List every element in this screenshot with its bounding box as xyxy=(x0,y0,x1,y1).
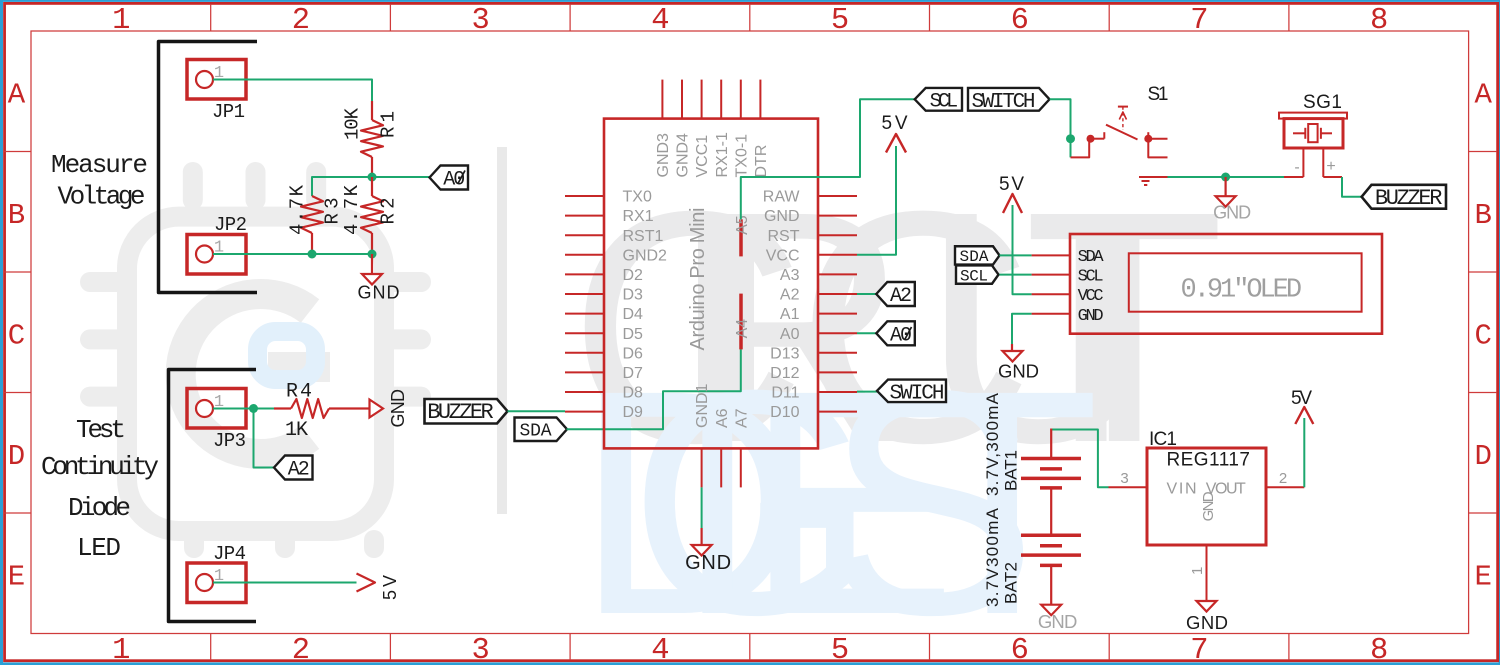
flag A0 (divider) xyxy=(430,166,469,192)
supply 5V arrow (IC1) xyxy=(1295,407,1313,424)
svg-text:GND: GND xyxy=(1038,611,1078,632)
svg-text:6: 6 xyxy=(1011,634,1029,665)
svg-text:2: 2 xyxy=(292,634,310,665)
IC U1 Arduino Pro Mini box xyxy=(604,119,818,449)
junction dot (R3) xyxy=(308,250,317,259)
svg-text:D9: D9 xyxy=(623,404,644,421)
OLED display area xyxy=(1129,253,1362,311)
svg-text:Voltage: Voltage xyxy=(58,182,146,212)
svg-text:D: D xyxy=(1474,440,1491,473)
wire SWITCH flag to S1 xyxy=(1050,99,1071,157)
svg-text:GND: GND xyxy=(358,283,400,303)
flag SDA (D8) xyxy=(515,418,568,442)
label 3.7V300mA xyxy=(983,507,1002,607)
label R2 xyxy=(378,198,400,225)
svg-text:5V: 5V xyxy=(882,113,908,134)
wire JP4 to 5V xyxy=(213,582,357,584)
pin A5 bar xyxy=(739,219,743,256)
svg-text:6: 6 xyxy=(1011,4,1029,38)
svg-text:SCL: SCL xyxy=(930,91,959,114)
resistor R3 xyxy=(301,196,323,254)
svg-text:REG1117: REG1117 xyxy=(1166,450,1250,471)
label REG1117 xyxy=(1166,450,1250,471)
wire JP3 node xyxy=(213,408,274,410)
svg-text:RX1-1: RX1-1 xyxy=(714,132,731,177)
flag SWICH xyxy=(877,380,946,406)
svg-text:D8: D8 xyxy=(623,385,644,402)
svg-text:E: E xyxy=(8,560,25,593)
wire JP1 to R1 xyxy=(213,80,372,102)
label R3 xyxy=(322,198,344,225)
flag SCL (top) xyxy=(915,88,962,114)
svg-text:D6: D6 xyxy=(623,345,644,362)
svg-text:E: E xyxy=(1474,560,1491,593)
ground GND (OLED) xyxy=(998,344,1039,382)
label JP2 xyxy=(214,214,247,236)
buzzer SG1 xyxy=(1279,113,1347,177)
svg-text:SCL: SCL xyxy=(1078,268,1104,287)
svg-text:SDA: SDA xyxy=(1078,248,1105,267)
text Test Continuity Diode LED xyxy=(41,415,159,563)
flag BUZZER (SG1) xyxy=(1362,185,1446,211)
svg-text:D: D xyxy=(8,440,25,473)
label 5V (OLED) xyxy=(999,174,1024,195)
wire SG1 minus xyxy=(1284,176,1303,178)
label OLED pin SCL xyxy=(1078,268,1104,287)
svg-text:A3: A3 xyxy=(780,267,800,284)
svg-text:GND: GND xyxy=(764,208,800,225)
pin TX0-1 xyxy=(733,80,750,178)
svg-text:GND: GND xyxy=(998,361,1039,382)
supply 5V arrow (OLED) xyxy=(1003,194,1022,213)
label 1K xyxy=(285,419,308,442)
label A4 xyxy=(734,319,751,339)
pin D11 xyxy=(771,385,857,402)
wire A5 to SCL flag xyxy=(741,99,915,219)
svg-text:0.91"OLED: 0.91"OLED xyxy=(1181,276,1303,306)
svg-text:1: 1 xyxy=(112,634,130,665)
svg-text:-: - xyxy=(1294,159,1299,176)
svg-text:1: 1 xyxy=(112,4,130,38)
svg-text:SDA: SDA xyxy=(520,422,552,442)
svg-text:BAT2: BAT2 xyxy=(1002,562,1021,604)
flag A2 (test) xyxy=(274,456,313,482)
svg-text:VIN: VIN xyxy=(1167,481,1197,498)
junction node A0 xyxy=(368,173,377,182)
svg-text:4.7K: 4.7K xyxy=(341,184,363,235)
label VOUT xyxy=(1206,481,1246,498)
regulator IC1 box xyxy=(1147,448,1266,545)
label 10K xyxy=(342,107,364,140)
svg-text:A0: A0 xyxy=(780,326,800,343)
svg-text:5: 5 xyxy=(831,634,849,665)
bracket Measure Voltage xyxy=(159,42,258,293)
svg-text:D5: D5 xyxy=(623,326,644,343)
svg-text:Test: Test xyxy=(76,415,126,445)
svg-text:C: C xyxy=(1474,319,1491,352)
wire SDA to A4 xyxy=(567,349,741,429)
svg-text:VCC: VCC xyxy=(1078,287,1104,306)
svg-text:TX0: TX0 xyxy=(623,189,652,206)
pin RST xyxy=(768,228,858,245)
svg-text:10K: 10K xyxy=(342,107,364,140)
label plus xyxy=(1326,158,1335,175)
label 0.91"OLED xyxy=(1181,276,1303,306)
flag SDA (OLED) xyxy=(955,246,1000,266)
svg-text:7: 7 xyxy=(1190,4,1208,38)
label 4.7K (R3) xyxy=(287,184,309,235)
svg-text:C: C xyxy=(8,319,25,352)
svg-text:GND: GND xyxy=(1078,307,1104,326)
svg-text:A7: A7 xyxy=(733,408,750,428)
wire SWICH xyxy=(857,391,878,393)
wire BUZZER to D9 xyxy=(508,410,566,412)
pin A2 xyxy=(780,287,857,304)
connector JP4 xyxy=(187,563,246,603)
ground GND (switch net) xyxy=(1213,177,1251,223)
svg-text:Diode: Diode xyxy=(68,493,131,523)
svg-text:JP3: JP3 xyxy=(213,430,246,452)
svg-text:RST: RST xyxy=(768,228,800,245)
svg-text:5: 5 xyxy=(831,4,849,38)
label R1 xyxy=(378,111,400,138)
junction dot (R2) xyxy=(368,250,377,259)
wire A0 xyxy=(857,332,876,334)
flag SWITCH xyxy=(968,88,1050,114)
wire SCL to OLED xyxy=(999,274,1031,276)
svg-text:A5: A5 xyxy=(734,215,751,235)
svg-text:SWICH: SWICH xyxy=(890,382,945,405)
svg-text:DTR: DTR xyxy=(753,145,770,178)
label A5 xyxy=(734,215,751,235)
bracket Test Continuity xyxy=(169,370,257,622)
svg-text:D2: D2 xyxy=(623,267,644,284)
label S1 xyxy=(1148,84,1169,105)
svg-text:3: 3 xyxy=(471,634,489,665)
svg-text:D10: D10 xyxy=(770,404,799,421)
svg-text:GND: GND xyxy=(1200,491,1217,521)
svg-text:GND1: GND1 xyxy=(694,383,711,428)
svg-text:7: 7 xyxy=(1190,634,1208,665)
svg-text:2: 2 xyxy=(292,4,310,38)
pin 1 (GND) xyxy=(1206,545,1208,601)
wire SDA to OLED xyxy=(999,254,1031,256)
svg-text:1: 1 xyxy=(1189,567,1206,575)
pin D7 xyxy=(565,365,643,382)
pin A6 xyxy=(714,408,731,487)
label R4 xyxy=(286,381,312,404)
svg-text:RAW: RAW xyxy=(763,189,801,206)
pin VCC1 xyxy=(694,80,711,178)
svg-text:RST1: RST1 xyxy=(623,228,664,245)
svg-text:3: 3 xyxy=(471,4,489,38)
ground GND (IC1) xyxy=(1186,601,1228,633)
label BAT2 xyxy=(1002,562,1021,604)
pin D5 xyxy=(565,326,643,343)
ground GND (Arduino GND1) xyxy=(685,487,731,574)
label SG1 xyxy=(1303,92,1342,113)
flag A0 (Arduino) xyxy=(876,321,915,347)
connector JP1 xyxy=(187,60,246,100)
junction dot (S1) xyxy=(1066,134,1075,143)
resistor R4 xyxy=(274,399,370,418)
OLED module box xyxy=(1032,234,1382,334)
svg-text:B: B xyxy=(1474,199,1491,232)
svg-text:D3: D3 xyxy=(623,287,644,304)
pin D8 xyxy=(565,385,643,402)
svg-text:LED: LED xyxy=(77,533,121,563)
pin D2 xyxy=(565,267,643,284)
svg-text:D11: D11 xyxy=(771,385,799,402)
svg-text:4: 4 xyxy=(651,4,669,38)
svg-text:A2: A2 xyxy=(890,285,912,308)
pin 2 (VOUT) xyxy=(1266,486,1304,488)
wire SG1 plus to BUZZER xyxy=(1323,177,1361,197)
pin GND4 xyxy=(675,80,692,178)
pin GND xyxy=(764,208,857,225)
resistor R1 xyxy=(361,101,383,177)
label 5V (JP4) xyxy=(380,575,400,600)
wire JP2 bus xyxy=(213,253,372,255)
text Measure Voltage xyxy=(51,150,148,212)
label JP4 xyxy=(213,543,246,565)
pin TX0 xyxy=(565,189,652,206)
svg-text:SCL: SCL xyxy=(960,267,988,285)
svg-text:B: B xyxy=(8,199,25,232)
svg-text:GND: GND xyxy=(1186,612,1228,633)
svg-text:5V: 5V xyxy=(1291,388,1312,409)
label BAT1 xyxy=(1002,450,1021,491)
label pin 3 xyxy=(1120,470,1128,487)
svg-text:GND4: GND4 xyxy=(675,133,692,178)
battery BAT1 xyxy=(1021,429,1081,536)
supply 5V arrow (JP4) xyxy=(357,574,376,592)
svg-text:A6: A6 xyxy=(714,408,731,428)
wire OLED GND xyxy=(1012,314,1032,344)
pin D4 xyxy=(565,306,643,323)
svg-text:D7: D7 xyxy=(623,365,644,382)
pin A4 bar xyxy=(739,294,743,350)
ground earth (S1) xyxy=(1139,177,1168,185)
label 3.7V,300mA xyxy=(983,392,1002,496)
svg-text:4.7K: 4.7K xyxy=(287,184,309,235)
svg-text:VCC: VCC xyxy=(766,247,800,264)
svg-text:BUZZER: BUZZER xyxy=(1375,186,1443,211)
label GND (R4) xyxy=(388,389,408,428)
wire IC1 out to 5V xyxy=(1303,418,1305,487)
svg-text:8: 8 xyxy=(1370,634,1388,665)
wire GND bus (S1-SG1) xyxy=(1168,176,1285,178)
svg-text:3.7V300mA: 3.7V300mA xyxy=(983,507,1002,607)
wire BAT1 to IC1 xyxy=(1051,430,1108,488)
supply 5V arrow (VCC) xyxy=(886,134,906,153)
pin A1 xyxy=(780,306,857,323)
pin D3 xyxy=(565,287,643,304)
pin A0 xyxy=(780,326,857,343)
label Arduino Pro Mini xyxy=(687,208,709,351)
label pin 1 xyxy=(1189,567,1206,575)
svg-text:Continuity: Continuity xyxy=(41,452,159,482)
ground arrow GND (R4) xyxy=(370,400,384,418)
svg-text:A0: A0 xyxy=(890,325,912,348)
label IC1 xyxy=(1149,429,1177,450)
wire A2 xyxy=(857,293,876,295)
svg-text:A2: A2 xyxy=(288,459,310,482)
svg-text:BUZZER: BUZZER xyxy=(427,400,494,425)
label JP1 xyxy=(212,101,245,123)
svg-text:GND: GND xyxy=(1213,203,1251,223)
svg-text:D4: D4 xyxy=(623,306,644,323)
svg-text:A4: A4 xyxy=(734,319,751,339)
pin GND1 xyxy=(694,383,711,487)
pin RAW xyxy=(763,189,857,206)
connector JP2 xyxy=(187,235,246,275)
svg-text:A0: A0 xyxy=(443,169,465,192)
wire to A2 flag xyxy=(254,409,275,468)
flag A2 (Arduino) xyxy=(876,282,915,308)
svg-text:Measure: Measure xyxy=(51,150,148,180)
svg-text:SWITCH: SWITCH xyxy=(972,91,1036,114)
battery BAT2 xyxy=(1021,535,1081,604)
label OLED pin GND xyxy=(1078,307,1104,326)
svg-text:SG1: SG1 xyxy=(1303,92,1342,113)
svg-text:1K: 1K xyxy=(285,419,308,442)
junction dot (GND bus) xyxy=(1221,173,1230,182)
pin RST1 xyxy=(565,228,664,245)
ground GND (divider) xyxy=(358,254,400,303)
pin GND3 xyxy=(655,80,672,178)
label minus xyxy=(1294,159,1299,176)
resistor R2 xyxy=(361,177,383,254)
pin D9 xyxy=(565,404,643,421)
svg-text:BAT1: BAT1 xyxy=(1002,450,1021,491)
svg-text:Arduino Pro Mini: Arduino Pro Mini xyxy=(687,208,709,351)
svg-text:3: 3 xyxy=(1120,470,1128,487)
pin D13 xyxy=(770,345,857,362)
junction dot (JP3) xyxy=(249,404,258,413)
label GND (IC1 pin name) xyxy=(1200,491,1217,521)
svg-text:A2: A2 xyxy=(780,287,800,304)
flag BUZZER (D9) xyxy=(425,399,508,425)
pin VCC xyxy=(766,247,857,264)
svg-text:GND3: GND3 xyxy=(655,133,672,178)
pin GND2 xyxy=(565,247,667,264)
svg-text:D12: D12 xyxy=(770,365,799,382)
svg-text:GND2: GND2 xyxy=(623,247,668,264)
pin A7 xyxy=(733,408,750,487)
svg-text:+: + xyxy=(1326,158,1335,175)
pin DTR xyxy=(753,80,770,178)
svg-text:2: 2 xyxy=(1279,470,1287,487)
ground GND (BAT2) xyxy=(1038,605,1078,632)
connector JP3 xyxy=(187,389,246,429)
svg-text:A1: A1 xyxy=(780,306,800,323)
label 4.7K (R2) xyxy=(341,184,363,235)
svg-text:5V: 5V xyxy=(999,174,1024,195)
pin RX1-1 xyxy=(714,80,731,178)
label 5V (IC1) xyxy=(1291,388,1312,409)
svg-text:TX0-1: TX0-1 xyxy=(733,134,750,178)
label VIN xyxy=(1167,481,1197,498)
label JP3 xyxy=(213,430,246,452)
label 5V (VCC) xyxy=(882,113,908,134)
svg-text:D13: D13 xyxy=(770,345,799,362)
label OLED pin SDA xyxy=(1078,248,1105,267)
label pin 2 xyxy=(1279,470,1287,487)
pin 3 (VIN) xyxy=(1109,486,1148,488)
pin D6 xyxy=(565,345,643,362)
svg-text:S1: S1 xyxy=(1148,84,1169,105)
pin A3 xyxy=(780,267,857,284)
flag SCL (OLED) xyxy=(956,265,999,285)
wire 5V to VCC xyxy=(857,146,896,255)
svg-text:VCC1: VCC1 xyxy=(694,135,711,178)
svg-text:SDA: SDA xyxy=(960,248,989,266)
svg-text:5V: 5V xyxy=(380,575,400,600)
wire node A0 xyxy=(312,177,430,196)
label OLED pin VCC xyxy=(1078,287,1104,306)
pin D12 xyxy=(770,365,857,382)
svg-text:GND: GND xyxy=(388,389,408,428)
svg-text:A: A xyxy=(1474,78,1492,111)
svg-text:JP2: JP2 xyxy=(214,214,247,236)
svg-text:R4: R4 xyxy=(286,381,312,404)
wire 5V to OLED VCC xyxy=(1013,205,1032,294)
svg-text:8: 8 xyxy=(1370,4,1388,38)
pin D10 xyxy=(770,404,857,421)
pin RX1 xyxy=(565,208,654,225)
svg-text:4: 4 xyxy=(651,634,669,665)
svg-text:GND: GND xyxy=(685,552,731,574)
svg-text:RX1: RX1 xyxy=(623,208,654,225)
svg-text:A: A xyxy=(8,78,26,111)
switch S1 xyxy=(1071,107,1168,158)
svg-text:JP1: JP1 xyxy=(212,101,245,123)
